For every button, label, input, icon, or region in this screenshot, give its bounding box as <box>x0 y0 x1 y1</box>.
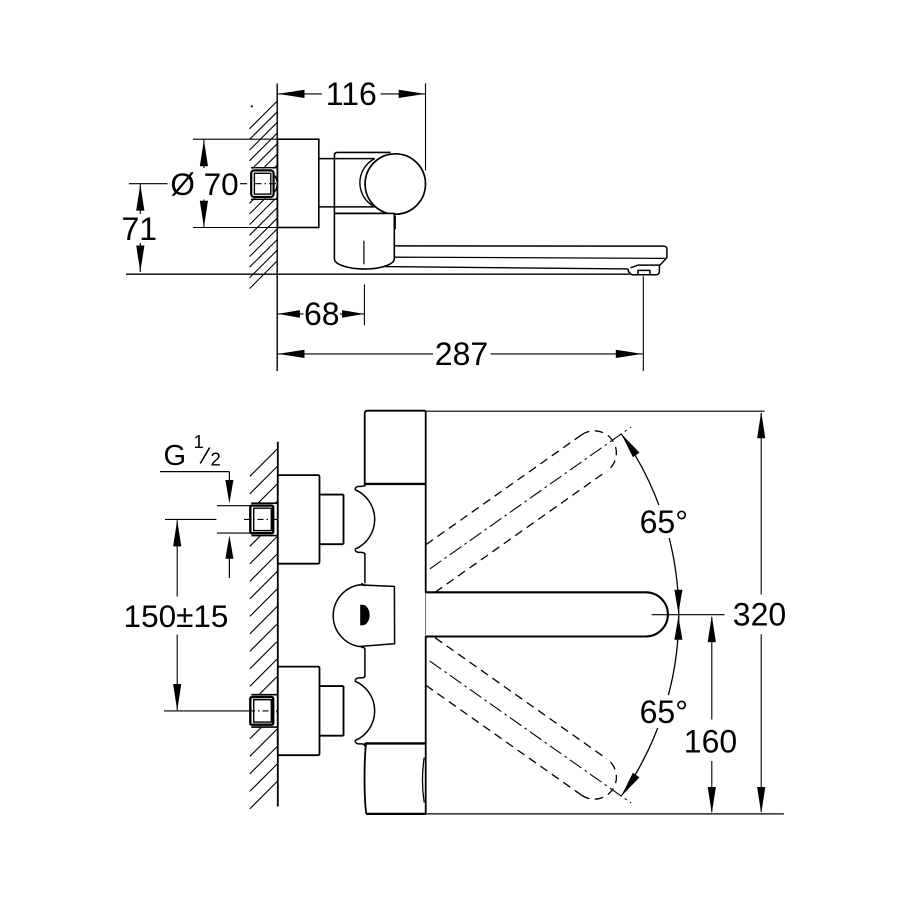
svg-text:116: 116 <box>326 76 377 112</box>
svg-text:160: 160 <box>684 723 737 759</box>
svg-text:287: 287 <box>435 336 488 372</box>
svg-text:1: 1 <box>194 431 204 452</box>
svg-text:65°: 65° <box>640 504 688 540</box>
svg-text:G: G <box>164 440 187 472</box>
svg-text:150±15: 150±15 <box>124 598 229 634</box>
svg-text:71: 71 <box>122 211 158 247</box>
svg-text:68: 68 <box>304 296 340 332</box>
svg-text:2: 2 <box>211 449 221 470</box>
svg-text:320: 320 <box>733 597 786 633</box>
svg-text:Ø 70: Ø 70 <box>170 166 238 202</box>
svg-text:65°: 65° <box>640 694 688 730</box>
